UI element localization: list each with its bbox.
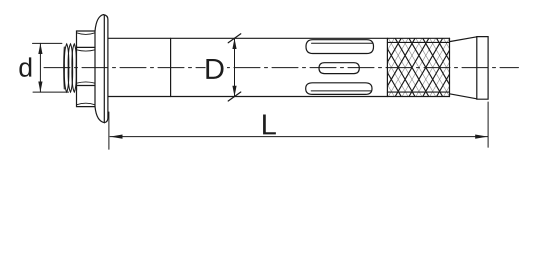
hex nut middle band lower chamfer arc xyxy=(77,82,96,83)
knurl bottom inner line xyxy=(387,91,449,93)
dimension L left extension line xyxy=(108,112,110,149)
hex nut middle band upper chamfer arc xyxy=(77,50,96,51)
hex nut top chamfer arc xyxy=(77,33,96,35)
flange outer edge xyxy=(103,15,108,123)
dimension L right arrowhead xyxy=(475,135,488,139)
label D xyxy=(206,59,223,79)
label L xyxy=(263,114,276,134)
dimension D top tick xyxy=(228,34,241,43)
flange bottom profile xyxy=(95,107,104,123)
dimension d down arrowhead xyxy=(38,82,42,93)
dimension L line xyxy=(110,136,488,138)
knurl start line xyxy=(386,38,388,96)
hex nut bottom chamfer arc xyxy=(77,103,96,105)
top slot xyxy=(306,40,374,54)
top slot inner line xyxy=(312,42,373,44)
bottom slot xyxy=(306,83,372,95)
sleeve bottom line xyxy=(108,96,449,98)
sleeve top line xyxy=(108,37,449,39)
dimension L left arrowhead xyxy=(110,135,123,139)
thread left edge xyxy=(63,47,66,89)
label d xyxy=(19,57,31,76)
thread right edge xyxy=(75,46,77,90)
hex nut lower facet line xyxy=(77,85,96,87)
end cap xyxy=(477,37,488,100)
dimension D bottom tick xyxy=(228,92,241,101)
knurl cross hatch xyxy=(354,38,477,96)
dimension D arrow line xyxy=(234,38,236,96)
thread helix lens 3 xyxy=(72,44,76,92)
knurl top inner line xyxy=(387,41,449,43)
dimension L right extension line xyxy=(487,102,489,147)
dimension d bottom extension line xyxy=(33,91,69,93)
middle slot xyxy=(319,63,359,74)
dimension D up arrowhead xyxy=(232,38,236,49)
sleeve joint line xyxy=(170,38,172,96)
thread helix lens 1 xyxy=(64,44,68,92)
centerline xyxy=(44,67,519,69)
thread helix lens 2 xyxy=(68,44,72,92)
expansion cone bottom edge xyxy=(450,94,477,99)
dimension D down arrowhead xyxy=(232,86,236,97)
knurl end line / cone left edge xyxy=(449,38,451,96)
hex nut upper facet line xyxy=(77,46,96,48)
bottom slot inner line xyxy=(311,90,371,92)
flange inner edge line xyxy=(103,16,105,122)
flange top profile xyxy=(95,15,103,31)
dimension d up arrowhead xyxy=(38,43,42,54)
label D mask xyxy=(206,58,228,81)
dimension d arrow line xyxy=(39,43,41,92)
expansion cone top edge xyxy=(450,37,477,42)
dimension d top extension line xyxy=(33,42,62,44)
hex nut outline xyxy=(77,31,96,107)
